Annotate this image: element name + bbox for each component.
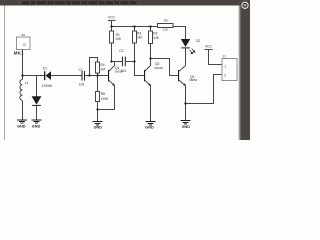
- svg-text:1M: 1M: [137, 36, 142, 40]
- svg-text:B1: B1: [22, 33, 26, 37]
- svg-text:10K: 10K: [115, 37, 122, 41]
- svg-text:1SS86: 1SS86: [42, 84, 53, 88]
- svg-text:R2: R2: [153, 31, 157, 35]
- svg-text:GND: GND: [145, 125, 154, 129]
- svg-text:VCC: VCC: [108, 16, 116, 20]
- svg-text:GND: GND: [94, 125, 103, 129]
- svg-text:D1: D1: [43, 67, 47, 71]
- svg-text:L1: L1: [25, 81, 29, 85]
- svg-text:GND: GND: [182, 125, 191, 129]
- svg-text:R8: R8: [101, 92, 105, 96]
- svg-text:470K: 470K: [101, 97, 109, 101]
- svg-text:10K: 10K: [153, 36, 160, 40]
- svg-text:MK1: MK1: [14, 51, 24, 56]
- svg-text:VCC: VCC: [205, 44, 213, 48]
- svg-text:J1: J1: [223, 55, 227, 59]
- svg-text:R5: R5: [164, 18, 168, 22]
- svg-text:C1: C1: [79, 68, 83, 72]
- svg-text:S8050: S8050: [189, 78, 198, 82]
- svg-text:S9018: S9018: [114, 70, 123, 74]
- svg-text:103: 103: [79, 83, 85, 87]
- svg-text:GND: GND: [32, 124, 41, 128]
- svg-text:C2: C2: [119, 49, 123, 53]
- svg-text:1: 1: [224, 65, 226, 69]
- svg-text:120: 120: [163, 27, 168, 31]
- svg-text:2: 2: [224, 74, 226, 78]
- svg-text:GND: GND: [17, 124, 26, 128]
- svg-text:1M: 1M: [100, 67, 105, 71]
- svg-text:D2: D2: [196, 39, 200, 43]
- svg-text:S9018: S9018: [154, 66, 163, 70]
